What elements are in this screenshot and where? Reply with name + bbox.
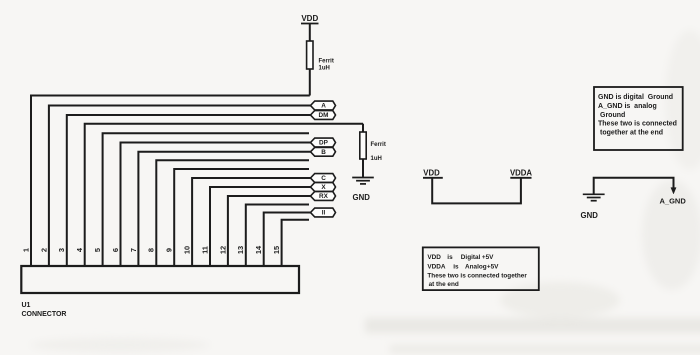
- svg-text:Ground: Ground: [600, 112, 625, 119]
- wire pin 5: [103, 133, 309, 266]
- svg-text:3: 3: [57, 248, 66, 252]
- net label B: [311, 147, 336, 156]
- svg-text:8: 8: [147, 248, 156, 252]
- svg-text:C: C: [321, 175, 326, 182]
- wire pin 9: [174, 169, 309, 266]
- svg-text:DP: DP: [319, 140, 329, 147]
- svg-text:11: 11: [200, 246, 209, 254]
- svg-text:DM: DM: [319, 112, 329, 119]
- svg-text:13: 13: [236, 246, 245, 254]
- wire pin 13: [246, 205, 309, 267]
- wire pin 6: [121, 143, 311, 267]
- svg-text:A_GND is analog: A_GND is analog: [598, 103, 657, 110]
- wire pin 4: [85, 124, 363, 266]
- svg-text:9: 9: [165, 248, 174, 252]
- svg-text:Il: Il: [322, 210, 326, 217]
- connector U1 body: [21, 266, 299, 293]
- net label DM: [311, 111, 336, 120]
- power symbol VDDA: [510, 169, 532, 178]
- svg-text:VDD: VDD: [301, 14, 318, 23]
- svg-text:2: 2: [39, 248, 48, 252]
- wire pin 2: [49, 106, 311, 267]
- note box VDD/VDDA outline: [423, 247, 539, 290]
- net label C: [311, 174, 336, 183]
- svg-text:10: 10: [183, 246, 192, 254]
- svg-text:U1: U1: [22, 302, 31, 309]
- svg-text:together at the end: together at the end: [600, 130, 663, 137]
- wire pin 8: [156, 160, 309, 266]
- svg-text:Ferrit: Ferrit: [319, 59, 334, 65]
- svg-text:14: 14: [254, 245, 263, 254]
- net label DP: [311, 138, 336, 147]
- node A_GND arrowhead: [671, 188, 676, 194]
- note box GND/A_GND text: [598, 94, 677, 137]
- note box GND/A_GND outline: [594, 87, 683, 150]
- svg-text:A_GND: A_GND: [660, 197, 687, 206]
- wire pin 11: [210, 187, 311, 266]
- wire VDD to L1: [309, 24, 311, 42]
- svg-text:7: 7: [129, 248, 138, 252]
- label L1 value Ferrit 1uH: [319, 59, 334, 72]
- svg-text:1uH: 1uH: [371, 156, 382, 162]
- svg-text:RX: RX: [319, 193, 329, 200]
- ground symbol (right GND): [583, 194, 605, 200]
- wire GND to A_GND tie: [594, 178, 674, 194]
- svg-text:VDDisDigital+5V: VDDisDigital+5V: [427, 254, 494, 261]
- svg-text:CONNECTOR: CONNECTOR: [22, 311, 67, 318]
- svg-text:GND: GND: [353, 193, 371, 202]
- power symbol VDD (top): [301, 14, 319, 24]
- svg-text:GND is digital Ground: GND is digital Ground: [598, 94, 673, 101]
- power symbol VDD (middle): [423, 169, 443, 178]
- wire L2 to ground: [362, 159, 364, 178]
- svg-text:12: 12: [218, 246, 227, 254]
- inductor L1 ferrite bead: [307, 41, 313, 69]
- svg-text:1uH: 1uH: [319, 66, 330, 72]
- svg-text:These two is connected: These two is connected: [598, 121, 677, 128]
- svg-text:VDDA: VDDA: [510, 169, 532, 178]
- svg-text:GND: GND: [581, 211, 599, 220]
- svg-text:A: A: [321, 103, 326, 110]
- svg-text:15: 15: [272, 246, 281, 254]
- svg-text:Ferrit: Ferrit: [371, 142, 386, 148]
- wire pin 12: [228, 196, 311, 266]
- net label Il: [311, 208, 336, 217]
- svg-text:6: 6: [111, 248, 120, 252]
- svg-text:X: X: [321, 184, 326, 191]
- svg-text:1: 1: [21, 248, 30, 252]
- ground symbol (under L2): [352, 178, 374, 184]
- net label X: [311, 183, 336, 192]
- wire L1 to pin1 net: [309, 69, 311, 96]
- svg-text:B: B: [321, 149, 326, 156]
- label L2 value Ferrit 1uH: [371, 142, 386, 162]
- wire pin 14: [264, 213, 311, 267]
- net label A: [311, 101, 336, 110]
- svg-text:These two is connected togethe: These two is connected together: [427, 273, 527, 280]
- svg-text:VDD: VDD: [423, 169, 440, 178]
- svg-text:at the end: at the end: [429, 281, 459, 288]
- note box VDD/VDDA text: [427, 254, 527, 288]
- wire pin 3: [67, 115, 311, 266]
- wire net to L2: [362, 124, 364, 132]
- inductor L2 ferrite bead: [360, 132, 366, 159]
- wire pin 7: [138, 152, 310, 266]
- wire VDD-VDDA tie: [432, 178, 521, 204]
- svg-text:5: 5: [93, 248, 102, 252]
- net label RX: [311, 192, 336, 201]
- wire pin 10: [192, 178, 310, 266]
- wire pin 15: [282, 220, 309, 266]
- wire pin 1: [31, 96, 310, 267]
